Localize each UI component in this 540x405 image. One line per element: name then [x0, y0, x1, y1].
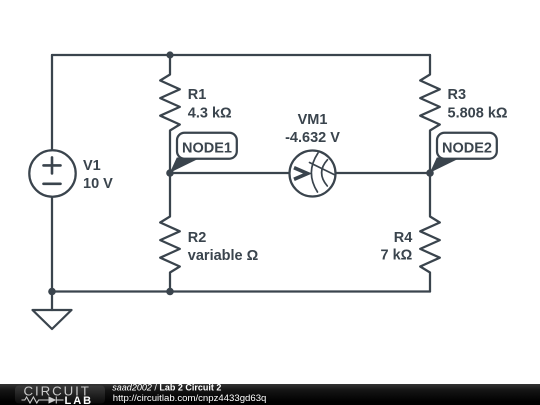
svg-text:10 V: 10 V [83, 176, 113, 192]
svg-text:LAB: LAB [65, 395, 94, 405]
svg-text:VM1: VM1 [298, 112, 328, 128]
svg-text:http://circuitlab.com/cnpz4433: http://circuitlab.com/cnpz4433gd63q [113, 393, 267, 404]
svg-text:-4.632 V: -4.632 V [285, 130, 340, 146]
svg-text:R2: R2 [188, 230, 207, 246]
svg-text:V1: V1 [83, 158, 101, 174]
svg-text:variable Ω: variable Ω [188, 248, 259, 264]
svg-text:R3: R3 [448, 87, 467, 103]
svg-text:NODE2: NODE2 [442, 141, 492, 157]
svg-text:saad2002 / Lab 2 Circuit 2: saad2002 / Lab 2 Circuit 2 [112, 383, 221, 393]
svg-text:R1: R1 [188, 87, 207, 103]
svg-text:R4: R4 [394, 230, 413, 246]
svg-text:5.808 kΩ: 5.808 kΩ [448, 106, 508, 122]
svg-text:7 kΩ: 7 kΩ [381, 248, 413, 264]
svg-text:4.3 kΩ: 4.3 kΩ [188, 106, 232, 122]
svg-text:NODE1: NODE1 [182, 141, 232, 157]
